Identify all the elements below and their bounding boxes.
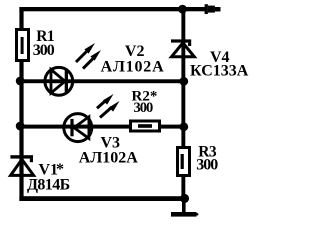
ground	[171, 212, 198, 217]
label V4	[210, 49, 230, 66]
svg-text:АЛ102А: АЛ102А	[79, 150, 138, 167]
value 300 of R2	[134, 100, 154, 116]
LED V3	[64, 94, 120, 142]
node: rail A left junction	[16, 77, 25, 86]
value 300 of R3	[196, 157, 218, 174]
svg-text:АЛ102А: АЛ102А	[101, 59, 165, 76]
wire: bottom rail	[19, 196, 185, 201]
wire: left vertical rail	[19, 7, 23, 201]
svg-text:300: 300	[33, 42, 55, 59]
value КС133А of V4	[190, 63, 249, 80]
label R1	[36, 28, 54, 45]
wire: right vertical rail	[181, 7, 185, 199]
label V2	[125, 43, 145, 60]
node: rail B right junction	[179, 122, 188, 131]
label V1*	[39, 161, 65, 179]
zener diode V4	[171, 39, 194, 56]
wire: middle rail B	[19, 125, 185, 129]
svg-text:300: 300	[134, 100, 154, 116]
svg-text:Д814Б: Д814Б	[27, 177, 70, 194]
svg-text:*: *	[56, 161, 64, 178]
zener diode V1	[10, 155, 33, 175]
label R3	[198, 144, 217, 161]
value АЛ102А of V3	[79, 150, 138, 167]
resistor R1	[17, 30, 29, 61]
label V3	[101, 135, 121, 152]
output terminal arrow	[205, 4, 221, 14]
node: rail B left junction	[16, 122, 25, 131]
wire: ground stub	[182, 198, 186, 212]
svg-text:V2: V2	[125, 43, 145, 60]
node: rail A right junction	[179, 77, 188, 86]
resistor R3	[178, 148, 190, 176]
label R2*	[132, 88, 158, 104]
resistor R2	[131, 121, 160, 131]
LED V2	[45, 43, 101, 95]
wire: middle rail A	[19, 79, 185, 83]
wire: top supply rail	[19, 7, 205, 11]
value Д814Б of V1	[27, 177, 70, 194]
svg-text:300: 300	[196, 157, 218, 174]
value АЛ102А of V2	[101, 59, 165, 76]
svg-text:КС133А: КС133А	[190, 63, 249, 80]
node: bottom junction	[180, 194, 189, 203]
node: junction of top rail and output	[178, 5, 187, 14]
value 300 of R1	[33, 42, 55, 59]
